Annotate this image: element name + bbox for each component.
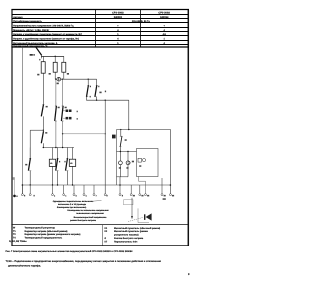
svg-text:ТС40 – Подключение к предприят: ТС40 – Подключение к предприятию энергос… — [6, 260, 162, 263]
resistor R2 — [53, 62, 57, 72]
wire contact2 to link — [96, 97, 98, 100]
svg-text:Т2: Т2 — [13, 233, 16, 236]
svg-text:б: б — [105, 237, 107, 240]
label EVF — [163, 198, 166, 200]
wire box top — [120, 130, 170, 194]
junction dot contact K7 top — [88, 79, 89, 80]
svg-text:CP2-200S: CP2-200S — [158, 12, 170, 15]
junction dot box top — [128, 129, 129, 130]
arrow down from terminal 10 — [131, 198, 133, 217]
box A left edge — [116, 130, 118, 186]
svg-text:Рис. 7 Электрическая схема на: Рис. 7 Электрическая схема нагревательны… — [6, 250, 134, 253]
label R2 — [49, 73, 51, 75]
junction dot lamp left — [55, 79, 56, 80]
wire: left supply rail from table to bottom bus — [21, 48, 23, 194]
terminal 1 — [21, 185, 23, 194]
svg-text:К1: К1 — [105, 227, 108, 230]
annotation leader to terminal 8 — [90, 200, 102, 201]
terminal 2 — [29, 185, 31, 194]
svg-text:Однофазное параллельное включе: Однофазное параллельное включение — [53, 200, 94, 203]
box B (timer) — [137, 149, 159, 177]
resistor R3 — [62, 62, 66, 72]
wire rail x30.2 — [29, 130, 31, 158]
pressure switch actuator — [112, 135, 116, 139]
label 12 — [99, 92, 101, 94]
svg-text:Мощность, кВт/ст: 1,25А, 250 В: Мощность, кВт/ст: 1,25А, 250 Вт — [13, 29, 50, 32]
dashed leader to buzzer — [128, 217, 143, 221]
legend column divider — [102, 225, 104, 246]
label R3 — [67, 73, 69, 75]
label b2 left — [58, 107, 60, 109]
connector pair B3 stub — [63, 117, 65, 119]
terminal PE (filled) — [13, 195, 16, 198]
terminal 9 — [119, 185, 121, 194]
page frame right border — [187, 10, 189, 246]
svg-text:К2: К2 — [70, 162, 72, 165]
coil K1 — [52, 148, 54, 160]
coil K2 — [72, 148, 74, 160]
wire B2 to lamp — [54, 72, 56, 79]
node: top bus — [41, 56, 64, 58]
label 2 — [105, 91, 106, 93]
wire rail x55.9 lower — [55, 121, 57, 148]
terminal 10 — [130, 185, 132, 194]
svg-text:Напряжение/частота напряжения:: Напряжение/частота напряжения: 220-240 В… — [13, 25, 74, 28]
svg-text:К1: К1 — [50, 162, 52, 165]
ground rail left — [13, 178, 15, 195]
lamp L2 — [119, 152, 121, 161]
junction dot lamp right — [62, 79, 63, 80]
connector pair B3 — [66, 117, 69, 120]
wire rail x62.6 upper — [62, 79, 64, 106]
svg-text:Индикатор нагрева (режим ускор: Индикатор нагрева (режим ускоренного наг… — [25, 233, 81, 236]
lamp H1 — [57, 77, 61, 81]
wire rail x55.9 upper — [55, 79, 57, 106]
contact B2a blade — [55, 106, 57, 121]
fuse B1 — [41, 62, 45, 73]
wire box A to feed — [119, 177, 121, 185]
svg-text:Индикатор нагрева (обычный реж: Индикатор нагрева (обычный режим) — [25, 230, 68, 233]
svg-text:Кнопка быстрого нагрева: Кнопка быстрого нагрева — [114, 237, 144, 240]
contact 2 blade — [95, 85, 97, 97]
svg-text:9: 9 — [188, 273, 190, 276]
svg-text:включение 3 и 10 (провода: включение 3 и 10 (провода — [58, 203, 87, 206]
annotation text block 2 — [67, 209, 109, 222]
main switch blade (thick diagonal) — [36, 47, 42, 55]
junction dot link — [96, 100, 97, 101]
svg-text:Магнитный пускатель (режим: Магнитный пускатель (режим — [114, 230, 148, 233]
wire riser B2 — [54, 56, 56, 62]
contact K2a blade group — [57, 148, 59, 159]
svg-text:Высокоскоростной напряжение: Высокоскоростной напряжение — [74, 216, 108, 219]
label contact1 — [90, 86, 91, 88]
label 12.1 — [30, 54, 33, 56]
svg-text:К7: К7 — [105, 240, 108, 243]
label p2 — [125, 139, 127, 141]
annotation text block 1 — [53, 200, 94, 209]
label contact2 — [98, 86, 99, 88]
junction dot T — [43, 130, 44, 131]
svg-text:Напряж. к удалённому пускателю: Напряж. к удалённому пускателю (зависит … — [13, 38, 79, 41]
switch S2 blade — [41, 104, 43, 116]
bus start tick — [40, 55, 42, 58]
svg-text:3: 3 — [54, 194, 55, 197]
svg-text:Магнитный пускатель (обычный р: Магнитный пускатель (обычный режим) — [114, 227, 160, 230]
contact B2a ticks — [55, 105, 57, 107]
svg-text:Т1: Т1 — [13, 230, 16, 233]
svg-text:Блокировка по включению напряж: Блокировка по включению напряжения — [67, 209, 109, 212]
connector pair B2 — [66, 110, 69, 113]
svg-text:повышенного напряжения: повышенного напряжения — [76, 212, 104, 215]
label 32 — [45, 132, 47, 134]
junction dot bus/R2 — [55, 56, 56, 57]
junction dot x62.4 — [62, 133, 63, 134]
label 31 — [46, 106, 48, 108]
table grid vertical lines — [95, 10, 97, 48]
svg-text:дневного/ночного тарифа.: дневного/ночного тарифа. — [8, 265, 41, 268]
terminal 12 — [145, 194, 147, 196]
wire branch down x105 — [104, 100, 106, 193]
buzzer — [144, 214, 145, 220]
wire rail x62.6 lower — [62, 121, 64, 148]
svg-text:Напряж. к удалённому пускателю: Напряж. к удалённому пускателю (зависит … — [13, 33, 82, 36]
svg-text:4: 4 — [65, 194, 66, 197]
junction dots feed — [22, 184, 24, 186]
switch S3 blade — [41, 131, 43, 143]
svg-text:7: 7 — [96, 194, 97, 197]
contact 2 ticks — [96, 84, 98, 86]
svg-text:Температурный регулятор: Температурный регулятор — [25, 226, 56, 229]
svg-text:Т4: Т4 — [13, 237, 16, 240]
wire bottom link of contacts — [87, 97, 129, 100]
svg-text:Переключатель 4-8ч: Переключатель 4-8ч — [114, 240, 138, 243]
switch S2 ticks — [42, 104, 44, 106]
terminals 3-7 — [53, 185, 95, 194]
wire riser B3 — [63, 56, 65, 62]
wire L under speaker — [138, 208, 149, 222]
lamp L1 (double) — [127, 152, 129, 161]
terminal 14 — [169, 194, 171, 196]
svg-text:N, В2, В3 ТЭНы.: N, В2, В3 ТЭНы. — [9, 240, 27, 243]
label L2 bracket — [132, 161, 134, 163]
wire rail from link corner down to box K top — [128, 100, 130, 129]
terminal 13 — [161, 178, 163, 194]
pressure switch wire — [120, 130, 122, 137]
page frame bottom — [11, 245, 189, 247]
contact B3a ticks — [62, 105, 64, 107]
wire box B bottom to terminal 12 — [139, 177, 146, 194]
pressure switch blade — [120, 136, 122, 147]
node bottom feed line — [22, 184, 170, 186]
svg-text:Встроенный выключатель нагрузк: Встроенный выключатель нагрузки, А — [13, 42, 58, 45]
small rect near terminals 9-10 — [124, 200, 134, 205]
label C2 — [57, 83, 59, 85]
ground label mark — [13, 177, 15, 180]
node lamps row — [117, 151, 137, 153]
svg-text:CP2-200S: CP2-200S — [112, 12, 124, 15]
wire lamp row to contacts — [61, 78, 97, 80]
svg-text:340091: 340091 — [114, 16, 123, 19]
svg-text:режим быстрого нагрева: режим быстрого нагрева — [70, 219, 97, 222]
contact 1 blade — [87, 85, 89, 97]
legend separator line — [11, 224, 189, 226]
box A bottom — [117, 176, 129, 178]
svg-text:блокировка при включении): блокировка при включении) — [57, 206, 87, 209]
terminal 11 — [139, 185, 141, 194]
svg-text:6: 6 — [86, 194, 87, 197]
label N1 — [37, 74, 39, 76]
svg-text:Артикул: Артикул — [13, 16, 23, 19]
pressure switch ticks — [120, 135, 122, 137]
svg-text:Температурный предохранитель: Температурный предохранитель — [25, 237, 63, 240]
svg-text:Температурный предохранитель,: Температурный предохранитель, °С — [13, 45, 48, 48]
svg-text:К2: К2 — [105, 230, 108, 233]
table grid horizontal lines — [11, 10, 189, 48]
wire rail B1 down to switch — [42, 73, 44, 104]
svg-text:340094: 340094 — [160, 16, 169, 19]
wire cross link y133.8 — [63, 133, 106, 135]
svg-text:220-240 В, 50 Гц: 220-240 В, 50 Гц — [132, 20, 150, 23]
table header texts — [112, 12, 170, 19]
contact 1 ticks — [87, 84, 89, 86]
wire branch left to K1 column — [30, 129, 43, 131]
page frame left border — [11, 10, 13, 246]
connector pair B2 stub — [63, 110, 65, 112]
wire B3 down — [63, 72, 65, 79]
svg-text:W: W — [13, 226, 16, 229]
timer component — [138, 158, 141, 162]
node mid rail — [43, 147, 74, 149]
contact B3a blade — [61, 106, 63, 121]
wire to lamps row — [119, 147, 121, 152]
wire S3 to mid rail — [42, 143, 44, 147]
wire riser B1 — [42, 56, 44, 61]
wire contact1 upper — [87, 79, 89, 85]
wire below S2 — [42, 116, 44, 131]
svg-text:5: 5 — [76, 194, 77, 197]
table row description texts — [13, 16, 82, 48]
contact K3a blade group — [66, 148, 68, 159]
label b2 right — [65, 107, 67, 109]
svg-text:Потребляемая мощность: Потребляемая мощность — [13, 20, 42, 23]
svg-text:ускоренного нагрева): ускоренного нагрева) — [114, 234, 139, 237]
contact K1a blade group — [29, 148, 31, 159]
table value texts — [117, 20, 166, 45]
wire corner at x96.6 — [96, 79, 98, 85]
terminal 8 — [104, 194, 106, 196]
junction dots mid rail — [43, 147, 44, 148]
